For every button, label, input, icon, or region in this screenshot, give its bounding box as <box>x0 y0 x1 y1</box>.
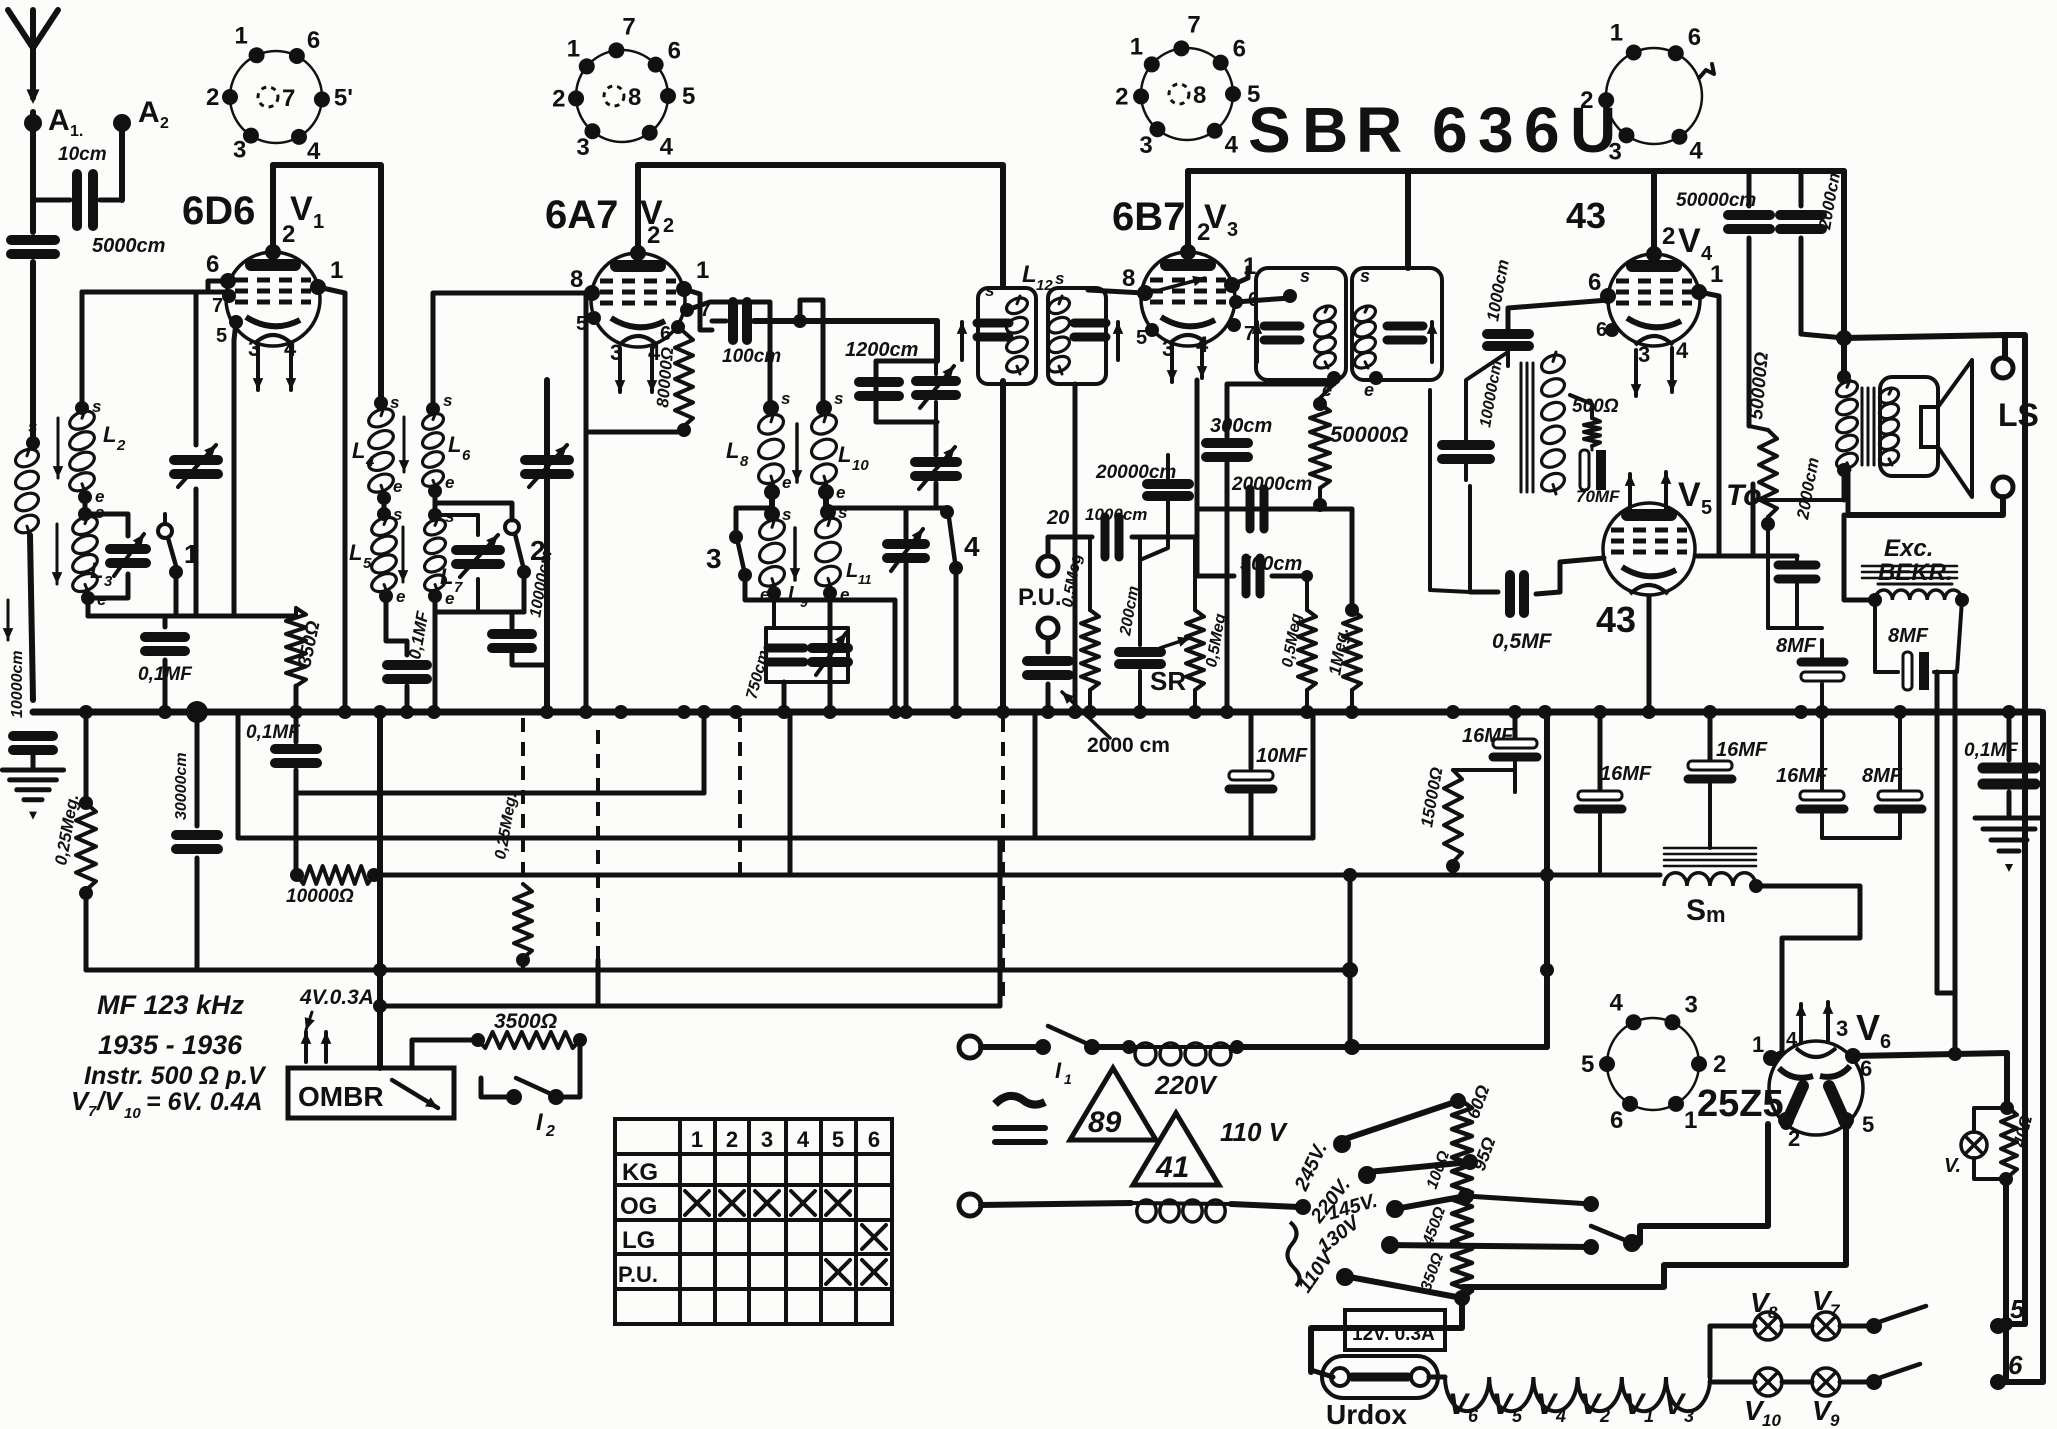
svg-text:10cm: 10cm <box>58 144 107 165</box>
wire 50000ohm net <box>1430 390 1470 592</box>
svg-text:e: e <box>393 477 402 496</box>
svg-text:5: 5 <box>576 313 587 335</box>
svg-text:= 6V. 0.4A: = 6V. 0.4A <box>146 1088 263 1116</box>
svg-text:2: 2 <box>116 437 126 454</box>
svg-text:43: 43 <box>1566 195 1606 236</box>
ground symbol right <box>1975 816 2043 821</box>
wire antenna coil feed <box>30 262 36 438</box>
capacitor PU 2000cm <box>1046 638 1051 652</box>
V4 pin 5 <box>1605 323 1619 337</box>
fuse coil top <box>1100 1044 1129 1050</box>
resistor 350ohm <box>294 608 298 616</box>
wire chain bottom to Urdox <box>1311 1298 1462 1372</box>
svg-text:1.: 1. <box>70 123 83 140</box>
V2 pin 7 <box>680 303 694 317</box>
V4 pin 6 <box>1600 288 1616 304</box>
svg-text:8: 8 <box>1122 265 1135 292</box>
speaker terminal bottom <box>1993 477 2013 497</box>
wire H2 AVC line <box>296 791 704 796</box>
wire pin1 riser <box>1771 1052 1782 1058</box>
rail right corner down <box>1841 171 1847 338</box>
IF2 tank1 coil <box>1312 303 1338 325</box>
svg-text:2: 2 <box>545 1123 555 1140</box>
svg-text:6A7: 6A7 <box>545 193 618 237</box>
svg-text:50000cm: 50000cm <box>1676 190 1756 211</box>
wire To bottom to plate <box>1753 498 1844 502</box>
svg-text:8MF: 8MF <box>1776 635 1817 657</box>
svg-text:10: 10 <box>852 457 869 474</box>
V1 pin 1 <box>310 279 326 295</box>
svg-text:s: s <box>1300 266 1310 286</box>
svg-text:1: 1 <box>1710 261 1723 288</box>
svg-text:3: 3 <box>706 543 722 574</box>
heater chain humps <box>1429 1375 1445 1380</box>
svg-text:89: 89 <box>1088 1106 1122 1139</box>
V1 pin 7 <box>222 289 236 303</box>
svg-text:3: 3 <box>1836 1016 1848 1041</box>
svg-text:3: 3 <box>1684 1406 1694 1426</box>
terminal AC top <box>959 1036 981 1058</box>
switch 5 <box>1840 1324 1874 1329</box>
svg-text:6: 6 <box>660 323 671 345</box>
wire AC bottom <box>981 1203 1131 1205</box>
resistor 0,25Meg left <box>84 712 89 800</box>
wire field to V6 right <box>1953 672 1958 1053</box>
wire y432 to 80000 ohm <box>586 430 680 435</box>
svg-text:2: 2 <box>1599 1406 1610 1426</box>
speaker cone <box>1921 407 1938 447</box>
driver transformer coil <box>1539 352 1567 376</box>
padder capacitor 2 <box>456 545 500 555</box>
tube V5 43 <box>1603 503 1695 595</box>
svg-text:5: 5 <box>832 1127 844 1152</box>
svg-text:V.: V. <box>1944 1155 1961 1177</box>
dashed line x598 <box>596 730 600 960</box>
V3 pin 5 <box>1145 323 1159 337</box>
svg-text:L: L <box>352 438 365 463</box>
V2 pin 8 <box>584 285 600 301</box>
svg-text:s: s <box>1055 269 1064 288</box>
wire switch to V6 pin2 <box>1640 1124 1768 1243</box>
wave switch 3 <box>736 508 772 530</box>
svg-text:0,5MF: 0,5MF <box>1492 630 1553 653</box>
svg-text:A: A <box>48 104 70 137</box>
svg-text:7: 7 <box>622 13 635 40</box>
Urdox element <box>1322 1356 1438 1398</box>
IF2 tank2 capacitor <box>1387 322 1423 331</box>
svg-text:6: 6 <box>1880 1031 1891 1053</box>
V6 pin 2 <box>1778 1112 1794 1128</box>
svg-text:1: 1 <box>1752 1032 1764 1057</box>
svg-text:3: 3 <box>1227 219 1238 241</box>
svg-text:3: 3 <box>104 573 113 590</box>
V6 pin 1 <box>1763 1050 1779 1066</box>
svg-text:2: 2 <box>206 84 219 111</box>
capacitor 10000cm osc <box>510 612 515 628</box>
svg-text:6: 6 <box>206 251 219 278</box>
heater dropping resistor chain <box>1452 1101 1472 1298</box>
wire 110V tap <box>1344 1276 1462 1298</box>
wire exc feed <box>1844 515 1875 600</box>
svg-text:11: 11 <box>858 572 872 587</box>
IF tank1 stem <box>1000 381 1006 712</box>
Urdox label 12V 03A <box>1345 1310 1445 1350</box>
svg-text:5: 5 <box>1136 327 1147 349</box>
svg-text:6: 6 <box>1233 36 1246 63</box>
V6 rectifier plates <box>1786 1086 1803 1124</box>
V3 pin 7 <box>1227 318 1241 332</box>
svg-text:4: 4 <box>307 138 321 165</box>
svg-text:e: e <box>445 589 454 608</box>
svg-text:5': 5' <box>334 84 353 111</box>
selector contact 245V <box>1333 1135 1351 1153</box>
AC symbol <box>995 1096 1045 1105</box>
svg-text:3: 3 <box>1608 138 1621 165</box>
V2 pin 1 <box>676 281 692 297</box>
svg-text:43: 43 <box>1596 599 1636 640</box>
output transformer To primary <box>1834 378 1860 400</box>
tube socket diagram 3 <box>1141 48 1233 140</box>
svg-text:1: 1 <box>1684 1107 1697 1134</box>
svg-text:6: 6 <box>462 447 471 464</box>
V2 pin 6 <box>671 320 685 334</box>
wire PU top <box>1048 537 1092 556</box>
pilot lamp V7 <box>1974 1108 2007 1132</box>
svg-text:7: 7 <box>88 1103 97 1120</box>
svg-text:10: 10 <box>124 1105 141 1122</box>
V6 cathode arcs <box>1779 1068 1813 1078</box>
coil L5 <box>382 498 387 512</box>
svg-text:1: 1 <box>1610 19 1623 46</box>
V5 plate line <box>1697 554 1797 559</box>
svg-text:6: 6 <box>868 1127 880 1152</box>
triangle 89 <box>1070 1068 1156 1140</box>
svg-text:e: e <box>782 473 791 492</box>
tube V4 43 <box>1608 254 1700 346</box>
wire speaker top <box>1844 335 2005 358</box>
svg-text:To: To <box>1726 479 1762 512</box>
svg-text:8: 8 <box>1193 82 1206 109</box>
AVC dashed line x523 <box>521 718 525 884</box>
svg-text:/V: /V <box>96 1086 124 1116</box>
wire L8 L10 join <box>769 492 775 512</box>
svg-text:e: e <box>836 483 845 502</box>
svg-text:3: 3 <box>233 137 246 164</box>
tube V3 6B7 <box>1141 252 1235 346</box>
svg-text:e: e <box>1364 380 1374 400</box>
svg-text:2: 2 <box>1115 83 1128 110</box>
svg-text:4: 4 <box>1610 989 1624 1016</box>
svg-text:5: 5 <box>363 555 372 572</box>
wave switch 2 <box>505 520 519 534</box>
svg-text:SR: SR <box>1150 666 1186 696</box>
svg-text:1: 1 <box>235 22 248 49</box>
terminal AC bottom <box>959 1194 981 1216</box>
svg-text:L: L <box>90 558 103 583</box>
svg-text:S: S <box>1686 894 1706 927</box>
svg-text:6: 6 <box>1588 269 1601 296</box>
svg-text:2: 2 <box>1197 219 1210 246</box>
svg-text:s: s <box>28 417 37 436</box>
wire 245V tap <box>1339 1101 1458 1141</box>
svg-text:L: L <box>103 422 116 447</box>
svg-text:7: 7 <box>454 579 463 596</box>
wire heater chain up <box>1708 1326 1713 1377</box>
wire H6 line <box>380 1004 1000 1009</box>
coil L3 <box>83 497 88 512</box>
svg-text:6: 6 <box>307 27 320 54</box>
coil L8 <box>763 400 779 416</box>
V5 cathode to bus <box>1647 596 1652 712</box>
tube V6 25Z5 <box>1769 1041 1863 1135</box>
svg-text:MF 123 kHz: MF 123 kHz <box>97 990 245 1020</box>
V6 pin 6 <box>1845 1048 1861 1064</box>
wire L3 to cathode net <box>88 598 234 616</box>
svg-text:6: 6 <box>2008 1350 2023 1380</box>
wire long vertical x547 <box>544 380 550 712</box>
wire x790 <box>788 712 793 875</box>
terminal A2 <box>113 114 131 132</box>
field coil Exc winding <box>1875 590 1962 600</box>
capacitor 70MF <box>1580 450 1589 490</box>
svg-text:2: 2 <box>282 221 295 248</box>
svg-text:7: 7 <box>1187 11 1200 38</box>
V3 pin 1 <box>1224 277 1240 293</box>
socket 4 keyway <box>1699 64 1714 78</box>
svg-text:3: 3 <box>1139 132 1152 159</box>
wire IF2 e to 300cm stem <box>1227 378 1334 420</box>
wire x380 down to OMBR <box>377 712 383 1068</box>
svg-text:20: 20 <box>1046 507 1069 529</box>
selector contact 110V <box>1336 1268 1354 1286</box>
wire grid line V1 <box>82 290 226 295</box>
V2 pin 2 <box>630 245 646 261</box>
tracking capacitor 3 <box>904 508 909 538</box>
svg-text:300cm: 300cm <box>1210 415 1272 437</box>
svg-text:1: 1 <box>1130 33 1143 60</box>
svg-text:OG: OG <box>620 1193 657 1220</box>
svg-text:6: 6 <box>1596 319 1607 341</box>
wire x296 down <box>294 793 299 875</box>
tube V2 6A7 <box>591 253 685 347</box>
V3 pin 6 <box>1229 295 1243 309</box>
svg-text:16MF: 16MF <box>1716 739 1768 761</box>
wire H5 line <box>86 968 1350 973</box>
triangle 41 <box>1133 1113 1219 1185</box>
svg-text:s: s <box>985 281 994 300</box>
wire osc grid top <box>435 503 512 520</box>
wire speaker bottom return <box>1848 497 2003 515</box>
IF tank1 capacitor <box>977 319 1009 328</box>
top rail B plus <box>1188 168 1844 174</box>
wire 16MF 8MF join <box>1822 836 1900 840</box>
svg-text:2: 2 <box>647 222 660 249</box>
ground symbol left <box>2 768 63 773</box>
wire 220V tap <box>1368 1162 1470 1172</box>
wire 20000cm line <box>1197 507 1320 512</box>
tube socket diagram 1 <box>230 51 322 143</box>
switch mains lever <box>1591 1226 1632 1243</box>
svg-text:B: B <box>1302 94 1348 166</box>
svg-text:S: S <box>1248 94 1291 166</box>
wire pin6 to lamp node <box>1853 1053 2007 1056</box>
tube V1 6D6 <box>226 252 320 346</box>
svg-text:Exc.: Exc. <box>1884 535 1933 562</box>
svg-text:Urdox: Urdox <box>1326 1399 1407 1429</box>
V1 pin 2 top <box>265 244 281 260</box>
svg-text:1: 1 <box>1064 1071 1072 1087</box>
V1 plate wire to L4 <box>273 165 381 403</box>
svg-text:L: L <box>838 442 851 467</box>
V3 pin 8 <box>1137 285 1153 301</box>
V4 pin 1 <box>1691 284 1707 300</box>
svg-text:2: 2 <box>663 215 674 237</box>
V2 pin 5 <box>587 311 601 325</box>
svg-text:30000cm: 30000cm <box>173 752 190 820</box>
wire osc mixer join <box>435 610 524 615</box>
svg-text:4: 4 <box>365 453 375 470</box>
svg-text:6D6: 6D6 <box>182 189 255 233</box>
svg-text:KG: KG <box>622 1159 658 1186</box>
svg-text:L: L <box>448 432 461 457</box>
switch I1 <box>981 1044 1043 1050</box>
tube socket diagram 2 <box>576 50 668 142</box>
output transformer To core <box>1861 388 1864 465</box>
wire 500ohm top <box>1570 395 1592 418</box>
svg-text:8: 8 <box>628 84 641 111</box>
svg-text:R: R <box>1356 94 1402 166</box>
wire to To primary <box>1751 484 1756 556</box>
svg-text:10: 10 <box>1762 1411 1781 1429</box>
svg-text:4: 4 <box>1225 132 1239 159</box>
tuning gang capacitor 1 <box>194 292 199 445</box>
wire V1 cathode stem <box>232 340 237 616</box>
svg-text:1: 1 <box>330 257 343 284</box>
svg-text:5: 5 <box>216 325 227 347</box>
wire rail to IF2 <box>1405 171 1411 268</box>
svg-text:A: A <box>138 96 160 129</box>
coil L7 <box>433 491 438 513</box>
svg-text:0,1MF: 0,1MF <box>138 664 193 685</box>
svg-text:7: 7 <box>282 85 295 112</box>
wave switch 4 <box>940 505 954 519</box>
svg-text:4: 4 <box>964 531 980 562</box>
svg-text:4: 4 <box>797 1127 810 1152</box>
svg-text:1: 1 <box>696 257 709 284</box>
wire field to V6 left <box>1935 672 1940 993</box>
wire H4 line <box>374 873 1660 878</box>
IF tank 1 box <box>978 288 1036 384</box>
V1 pin 5 <box>229 315 243 329</box>
svg-text:P.U.: P.U. <box>1018 584 1062 611</box>
IF tank2 coil <box>1046 295 1072 317</box>
selector contact 220V <box>1358 1166 1376 1184</box>
svg-text:1935 - 1936: 1935 - 1936 <box>98 1030 243 1060</box>
svg-text:s: s <box>834 389 843 408</box>
V1 pin 6 <box>220 273 236 289</box>
svg-text:8MF: 8MF <box>1888 625 1929 647</box>
wire harmonic line <box>833 506 947 511</box>
svg-text:6: 6 <box>1860 1056 1872 1081</box>
svg-text:6: 6 <box>668 38 681 65</box>
svg-text:10000Ω: 10000Ω <box>286 886 354 907</box>
selector wiper squiggle <box>1287 1222 1299 1286</box>
speaker terminal top <box>1993 358 2013 378</box>
wire x1350 riser <box>1348 875 1353 1047</box>
switch 6 <box>1840 1380 1874 1385</box>
IF tank2 capacitor <box>1074 319 1106 328</box>
coil L11 <box>820 504 836 520</box>
wire speaker to lamp line <box>2005 335 2025 1324</box>
svg-text:OMBR: OMBR <box>298 1081 384 1112</box>
wire pin5 down <box>1462 1120 1846 1287</box>
svg-text:2: 2 <box>1788 1126 1800 1151</box>
svg-text:V: V <box>1678 222 1701 260</box>
OMBR arrows <box>304 1032 308 1062</box>
wire L1 to blocking cap <box>30 535 33 700</box>
antenna <box>8 10 58 48</box>
svg-text:5: 5 <box>1581 1051 1594 1078</box>
svg-text:5000cm: 5000cm <box>92 235 165 257</box>
svg-text:5: 5 <box>1701 497 1712 519</box>
coil L6 <box>426 402 440 416</box>
V4 pin 2 <box>1646 246 1662 262</box>
tube socket diagram 4 <box>1606 48 1702 144</box>
band table <box>615 1119 892 1324</box>
svg-text:6: 6 <box>1610 1107 1623 1134</box>
svg-text:3500Ω: 3500Ω <box>494 1010 557 1033</box>
svg-text:5: 5 <box>1512 1406 1523 1426</box>
svg-text:L: L <box>349 540 362 565</box>
svg-text:4V.0.3A: 4V.0.3A <box>299 986 374 1009</box>
wire 145V tap to switch <box>1466 1196 1591 1204</box>
IF2 tank2 coil <box>1352 303 1378 325</box>
wire x586 screen <box>584 293 589 712</box>
svg-text:7: 7 <box>1244 323 1255 345</box>
capacitor 100cm coupling <box>712 319 726 324</box>
svg-text:6B7: 6B7 <box>1112 195 1185 239</box>
svg-text:8: 8 <box>570 266 583 293</box>
wire Sm to rectifier <box>1756 886 1860 1050</box>
svg-text:6: 6 <box>1688 24 1701 51</box>
selector contact 130V <box>1381 1236 1399 1254</box>
dashed line x1003 AVC <box>1001 718 1005 1002</box>
V5 grid wire <box>1560 558 1604 562</box>
svg-text:4: 4 <box>1676 338 1689 363</box>
wire x895 <box>762 598 895 603</box>
svg-text:m: m <box>1706 902 1726 927</box>
wire AC riser x1547 <box>1544 712 1550 1047</box>
svg-text:10MF: 10MF <box>1256 745 1308 767</box>
svg-text:P.U.: P.U. <box>618 1262 658 1287</box>
svg-text:6: 6 <box>1468 1406 1479 1426</box>
bus junction dots <box>79 705 93 719</box>
svg-text:2: 2 <box>160 115 169 132</box>
svg-text:s: s <box>443 391 452 410</box>
svg-text:2: 2 <box>1662 223 1675 250</box>
fuse coil bottom <box>1137 1200 1156 1222</box>
svg-text:3: 3 <box>1478 94 1514 166</box>
svg-text:16MF: 16MF <box>1600 763 1652 785</box>
svg-text:20000cm: 20000cm <box>1231 474 1312 495</box>
wire to 1Meg <box>1320 509 1352 610</box>
svg-text:5: 5 <box>2010 1294 2025 1324</box>
wire H3 line <box>236 712 241 838</box>
selector contact 145V <box>1386 1200 1404 1218</box>
wave switch 1 <box>163 514 167 524</box>
wire antenna to A1 <box>30 112 36 200</box>
svg-text:70MF: 70MF <box>1576 487 1620 506</box>
